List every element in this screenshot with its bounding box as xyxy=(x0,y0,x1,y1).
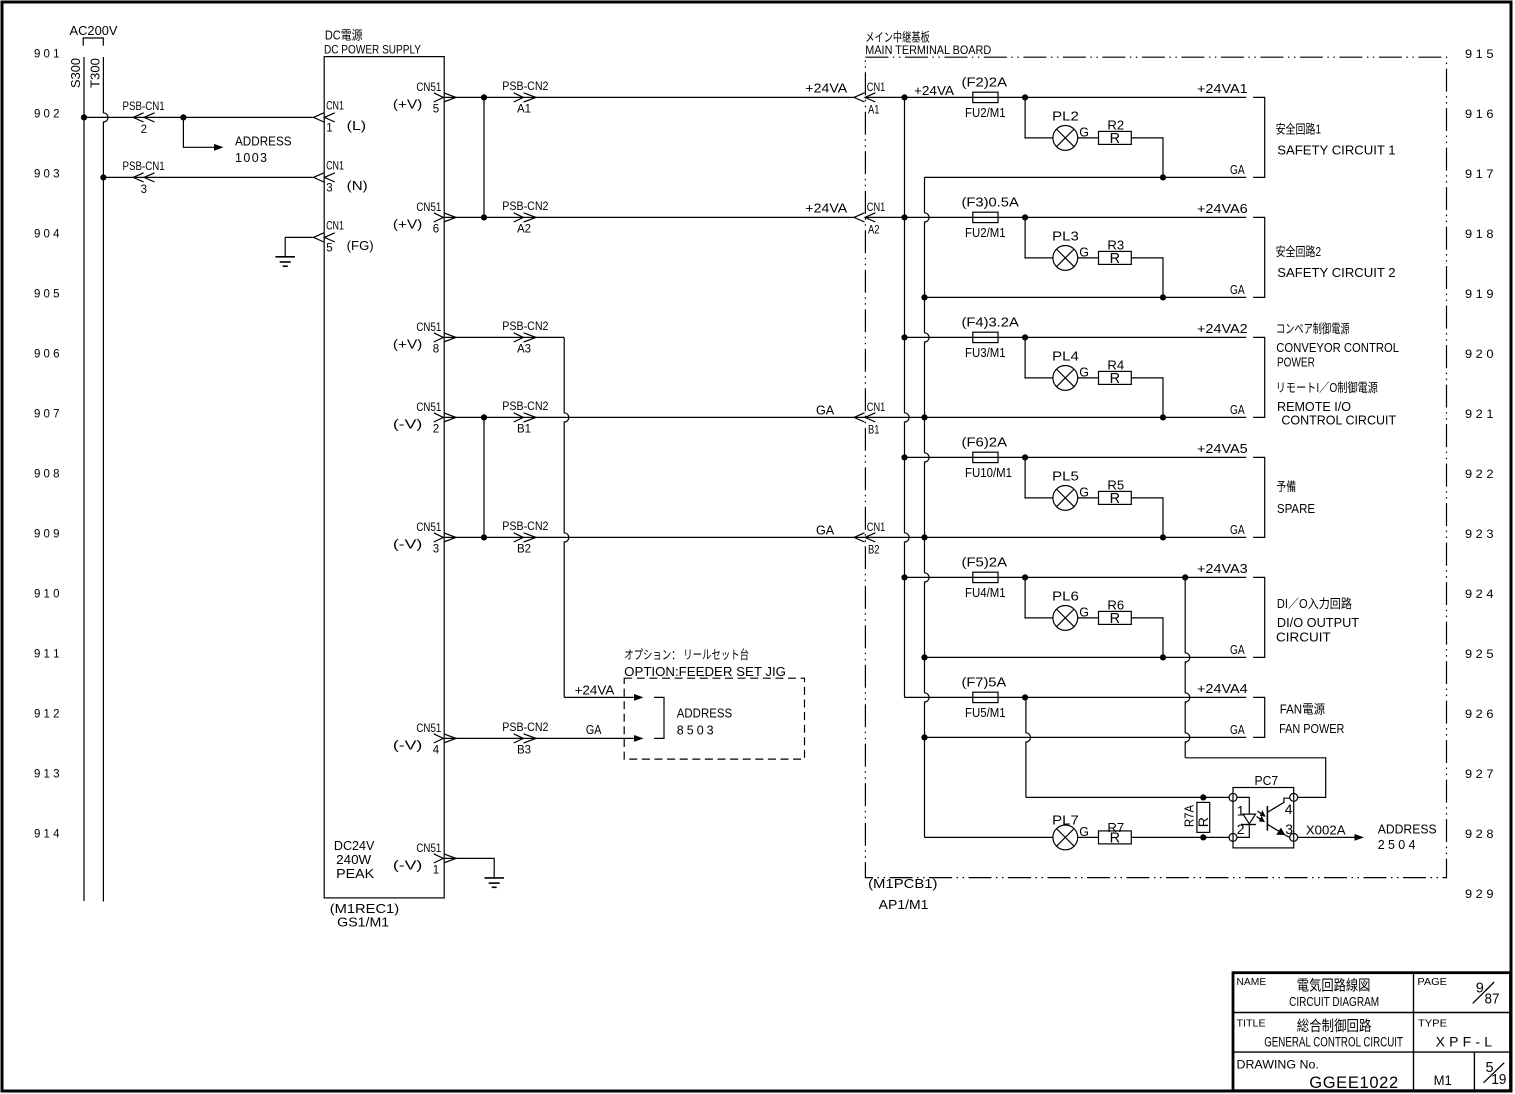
svg-text:NAME: NAME xyxy=(1237,976,1267,988)
svg-text:A3: A3 xyxy=(517,343,531,355)
svg-text:R2: R2 xyxy=(1107,119,1124,133)
svg-text:(M1REC1): (M1REC1) xyxy=(330,902,399,916)
junction +24VA bus y=457.4 xyxy=(901,454,907,460)
connector CN51 pin 6 (+V) xyxy=(434,213,444,222)
junction after fuse ch2 xyxy=(1022,214,1028,220)
svg-text:GA: GA xyxy=(1230,283,1245,297)
svg-text:9 0 6: 9 0 6 xyxy=(34,347,60,361)
main terminal board box AP1/M1 (chain line) xyxy=(865,57,1446,877)
bracket load ch6 xyxy=(1253,697,1265,737)
connector PSB-CN2 pin B1 xyxy=(514,413,524,422)
svg-text:ADDRESS: ADDRESS xyxy=(677,707,732,721)
svg-text:(F4)3.2A: (F4)3.2A xyxy=(962,315,1020,329)
wire CN51-1 to ground xyxy=(444,858,494,878)
option feeder set jig dashed box xyxy=(624,678,804,759)
svg-text:リモートI／O制御電源: リモートI／O制御電源 xyxy=(1276,380,1379,395)
svg-text:DC POWER SUPPLY: DC POWER SUPPLY xyxy=(324,43,421,57)
fuse (F2)2A FU2/M1 xyxy=(973,92,998,102)
junction +24VA bus y=577.4 xyxy=(901,574,907,580)
junction R7A bottom xyxy=(1200,834,1206,840)
svg-text:6: 6 xyxy=(433,223,439,235)
svg-text:2: 2 xyxy=(141,124,147,136)
svg-text:(-V): (-V) xyxy=(393,418,422,432)
svg-text:DC電源: DC電源 xyxy=(325,29,363,43)
wire GA row ch5 xyxy=(925,656,1247,658)
svg-text:AC200V: AC200V xyxy=(70,24,119,38)
svg-text:CN51: CN51 xyxy=(416,522,441,534)
svg-text:+24VA5: +24VA5 xyxy=(1197,442,1248,456)
wire tie CN51-2/3 xyxy=(483,417,485,537)
connector PSB-CN2 pin A2 xyxy=(514,213,524,222)
svg-text:SAFETY CIRCUIT 1: SAFETY CIRCUIT 1 xyxy=(1277,144,1395,158)
svg-text:FAN電源: FAN電源 xyxy=(1280,703,1326,717)
svg-text:CN1: CN1 xyxy=(867,402,886,414)
wire fuse to lamp PL4 xyxy=(1025,337,1053,378)
svg-text:DC24V: DC24V xyxy=(334,839,375,853)
svg-text:GA: GA xyxy=(1230,643,1245,657)
connector CN1 pin A2 on main board xyxy=(854,213,864,222)
resistor R4 xyxy=(1099,371,1132,384)
wire +24VA into option jig xyxy=(564,696,634,698)
svg-text:240W: 240W xyxy=(336,853,371,867)
svg-text:GA: GA xyxy=(1230,523,1245,537)
svg-text:R: R xyxy=(1110,611,1120,627)
fuse (F7)5A FU5/M1 xyxy=(973,692,998,702)
svg-text:+24VA: +24VA xyxy=(805,202,848,216)
svg-text:3: 3 xyxy=(141,184,147,196)
svg-text:GA: GA xyxy=(816,523,835,537)
resistor R6 xyxy=(1099,611,1132,624)
svg-text:総合制御回路: 総合制御回路 xyxy=(1297,1018,1372,1035)
svg-text:XPF-L: XPF-L xyxy=(1436,1033,1493,1049)
junction on T300 row 903 xyxy=(100,174,106,180)
svg-text:9 2 2: 9 2 2 xyxy=(1465,467,1494,481)
wire resistor R3 to GA xyxy=(1131,258,1163,298)
junction after fuse ch4 xyxy=(1022,454,1028,460)
svg-text:PL3: PL3 xyxy=(1052,230,1079,244)
svg-text:9 1 8: 9 1 8 xyxy=(1465,227,1494,241)
PC7 pin 2 xyxy=(1229,833,1237,841)
svg-text:4: 4 xyxy=(433,744,440,756)
svg-text:3: 3 xyxy=(1285,821,1293,837)
resistor R3 xyxy=(1099,251,1132,264)
connector CN1 pin B1 on main board xyxy=(854,413,864,422)
svg-text:CN51: CN51 xyxy=(416,202,441,214)
resistor R7 xyxy=(1099,831,1132,844)
svg-text:+24VA1: +24VA1 xyxy=(1197,82,1248,96)
wire PC7 pin 3 to X002A xyxy=(1298,836,1355,838)
junction GA bus y=737.4 xyxy=(921,734,927,740)
svg-text:MAIN TERMINAL BOARD: MAIN TERMINAL BOARD xyxy=(865,43,991,57)
svg-text:(FG): (FG) xyxy=(347,239,374,253)
svg-text:9 2 4: 9 2 4 xyxy=(1465,587,1494,601)
wire CN51-6 to CN1-A2 (+24VA) xyxy=(444,216,854,218)
svg-text:(-V): (-V) xyxy=(393,538,422,552)
svg-text:CN51: CN51 xyxy=(416,723,441,735)
svg-text:9 2 6: 9 2 6 xyxy=(1465,707,1494,721)
svg-text:AP1/M1: AP1/M1 xyxy=(879,898,929,912)
svg-text:CN51: CN51 xyxy=(416,82,441,94)
wire FG to CN1-5 xyxy=(285,236,313,238)
svg-text:FU4/M1: FU4/M1 xyxy=(965,586,1006,600)
svg-text:PSB-CN2: PSB-CN2 xyxy=(502,521,548,533)
svg-text:電気回路線図: 電気回路線図 xyxy=(1297,977,1371,994)
svg-text:R7: R7 xyxy=(1107,821,1124,835)
connector CN1 pin 1 (L) on DC supply xyxy=(314,113,324,122)
wire T300 (vertical supply line) xyxy=(103,57,108,902)
bracket load ch3 xyxy=(1253,337,1265,417)
junction +24VA3 to PC7 branch xyxy=(1182,574,1188,580)
svg-text:B3: B3 xyxy=(517,744,531,756)
wire fuse to lamp PL6 xyxy=(1025,577,1053,618)
junction GA bus y=297.4 xyxy=(921,294,927,300)
wire PL7 to R7 xyxy=(1078,836,1099,838)
connector CN51 pin 8 (+V) xyxy=(434,333,444,342)
svg-text:PL2: PL2 xyxy=(1052,110,1079,124)
svg-text:9 1 4: 9 1 4 xyxy=(34,827,60,841)
wire +24V feed row channel 2 xyxy=(865,216,1246,218)
svg-text:+24VA2: +24VA2 xyxy=(1197,322,1248,336)
svg-text:CN1: CN1 xyxy=(326,101,344,113)
wire to ADDRESS 1003 xyxy=(183,117,214,147)
svg-text:+24VA4: +24VA4 xyxy=(1197,682,1248,696)
svg-text:コンベア制御電源: コンベア制御電源 xyxy=(1276,321,1350,336)
wire GA row ch2 xyxy=(925,296,1247,298)
PC7 pin 1 xyxy=(1229,793,1237,801)
svg-text:R: R xyxy=(1110,251,1120,267)
svg-text:FU5/M1: FU5/M1 xyxy=(965,706,1006,720)
wire fuse to lamp PL2 xyxy=(1025,97,1053,137)
svg-text:R5: R5 xyxy=(1107,479,1124,493)
svg-text:A2: A2 xyxy=(517,223,531,235)
wire fuse to lamp PL5 xyxy=(1025,457,1053,498)
svg-text:(L): (L) xyxy=(347,119,366,133)
svg-text:PSB-CN2: PSB-CN2 xyxy=(502,321,548,333)
connector CN51 pin 3 (-V) xyxy=(434,533,444,542)
wire GA bus to PL7 row xyxy=(925,836,1053,838)
svg-text:FAN POWER: FAN POWER xyxy=(1279,722,1344,736)
svg-text:9 2 3: 9 2 3 xyxy=(1465,527,1494,541)
connector CN1 pin 3 (N) on DC supply xyxy=(314,173,324,182)
svg-text:9 2 1: 9 2 1 xyxy=(1465,407,1494,421)
junction on S300 row 902 xyxy=(81,114,87,120)
junction after fuse ch5 xyxy=(1022,574,1028,580)
svg-text:S300: S300 xyxy=(69,58,83,88)
junction tie A2 xyxy=(481,214,487,220)
svg-text:TITLE: TITLE xyxy=(1237,1017,1266,1029)
svg-text:+24VA3: +24VA3 xyxy=(1197,562,1248,576)
DC power supply box GS1/M1 xyxy=(324,57,444,898)
svg-text:9 0 3: 9 0 3 xyxy=(34,167,60,181)
junction after fuse ch1 xyxy=(1022,94,1028,100)
svg-text:PSB-CN2: PSB-CN2 xyxy=(502,722,548,734)
svg-text:GA: GA xyxy=(1230,163,1245,177)
resistor R7A (vertical) xyxy=(1197,802,1210,832)
bus +24VA vertical xyxy=(905,97,910,697)
svg-text:DRAWING No.: DRAWING No. xyxy=(1237,1057,1319,1071)
junction R7A top xyxy=(1200,794,1206,800)
lamp PL7 xyxy=(1053,825,1078,850)
svg-text:(N): (N) xyxy=(347,179,368,193)
bracket load ch5 xyxy=(1253,577,1265,657)
svg-text:安全回路1: 安全回路1 xyxy=(1276,122,1321,137)
wire fuse to lamp PL3 xyxy=(1025,217,1053,258)
connector PSB-CN1 pin 3 xyxy=(133,173,143,182)
wire GA row ch3 xyxy=(854,416,1246,418)
svg-text:PL7: PL7 xyxy=(1052,813,1079,827)
svg-text:FU2/M1: FU2/M1 xyxy=(965,106,1006,120)
svg-text:B1: B1 xyxy=(868,424,880,436)
PC7 phototransistor xyxy=(1266,806,1268,831)
svg-text:(-V): (-V) xyxy=(393,859,422,873)
svg-text:PL5: PL5 xyxy=(1052,470,1079,484)
wire +24V feed row channel 5 xyxy=(905,576,1247,578)
svg-text:OPTION:FEEDER SET JIG: OPTION:FEEDER SET JIG xyxy=(624,665,786,679)
svg-text:GA: GA xyxy=(1230,403,1245,417)
svg-text:PC7: PC7 xyxy=(1255,774,1279,788)
AC200V bracket xyxy=(83,38,103,46)
svg-text:9 0 1: 9 0 1 xyxy=(34,47,60,61)
connector CN1 pin 5 (FG) on DC supply xyxy=(314,233,324,242)
connector CN51 pin 1 (-V) xyxy=(434,854,444,863)
svg-text:R: R xyxy=(1110,131,1120,147)
svg-text:9 1 9: 9 1 9 xyxy=(1465,287,1494,301)
svg-text:オプション： リールセット台: オプション： リールセット台 xyxy=(624,647,749,662)
wire resistor R2 to GA xyxy=(1131,138,1163,178)
svg-text:9 2 0: 9 2 0 xyxy=(1465,347,1494,361)
wire lamp to resistor R4 xyxy=(1078,377,1099,379)
fuse (F6)2A FU10/M1 xyxy=(973,452,998,462)
wire lamp to resistor R5 xyxy=(1078,497,1099,499)
PC7 pin 4 xyxy=(1290,793,1298,801)
svg-text:GA: GA xyxy=(816,403,835,417)
svg-text:CN1: CN1 xyxy=(326,221,344,233)
lamp PL6 xyxy=(1053,606,1078,631)
svg-text:(F3)0.5A: (F3)0.5A xyxy=(962,195,1020,209)
svg-text:1: 1 xyxy=(433,864,439,876)
svg-text:DI／O入力回路: DI／O入力回路 xyxy=(1277,596,1352,611)
svg-text:(M1PCB1): (M1PCB1) xyxy=(868,877,937,891)
wire row 902 phase S to CN1-1 (L) xyxy=(84,116,313,118)
svg-text:9 2 5: 9 2 5 xyxy=(1465,647,1494,661)
fuse (F4)3.2A FU3/M1 xyxy=(973,332,998,342)
svg-text:PSB-CN2: PSB-CN2 xyxy=(502,201,548,213)
svg-text:R: R xyxy=(1110,491,1120,507)
wire resistor R5 to GA xyxy=(1131,498,1163,538)
svg-text:予備: 予備 xyxy=(1276,479,1296,494)
svg-text:R: R xyxy=(1195,817,1211,827)
wire tie CN51-5/6 xyxy=(483,97,485,217)
svg-text:19: 19 xyxy=(1491,1072,1506,1088)
svg-text:9 0 4: 9 0 4 xyxy=(34,227,60,241)
svg-text:9 1 2: 9 1 2 xyxy=(34,707,60,721)
ground symbol at CN51-1 xyxy=(484,877,504,879)
svg-text:9 1 3: 9 1 3 xyxy=(34,767,60,781)
svg-text:+24VA: +24VA xyxy=(914,84,955,98)
fuse (F5)2A FU4/M1 xyxy=(973,572,998,582)
svg-text:9 1 6: 9 1 6 xyxy=(1465,107,1494,121)
connector PSB-CN2 pin A1 xyxy=(514,93,524,102)
svg-text:GS1/M1: GS1/M1 xyxy=(337,916,389,930)
svg-text:(+V): (+V) xyxy=(393,218,422,232)
svg-text:9 0 7: 9 0 7 xyxy=(34,407,60,421)
connector CN51 pin 4 (-V) xyxy=(434,734,444,743)
svg-text:9 1 1: 9 1 1 xyxy=(34,647,60,661)
fuse (F3)0.5A FU2/M1 xyxy=(973,212,998,222)
wire GA row ch4 xyxy=(854,536,1246,538)
svg-text:9 0 2: 9 0 2 xyxy=(34,107,60,121)
svg-text:PL6: PL6 xyxy=(1052,590,1079,604)
wire +24V feed row channel 3 xyxy=(905,336,1247,338)
svg-text:TYPE: TYPE xyxy=(1418,1017,1447,1029)
svg-text:9 0 9: 9 0 9 xyxy=(34,527,60,541)
svg-text:9 2 8: 9 2 8 xyxy=(1465,827,1494,841)
node ADDRESS 1003 branch junction xyxy=(180,114,186,120)
svg-text:B2: B2 xyxy=(868,544,880,556)
junction after fuse ch3 xyxy=(1022,334,1028,340)
svg-text:CONTROL CIRCUIT: CONTROL CIRCUIT xyxy=(1281,414,1396,428)
svg-text:5: 5 xyxy=(433,103,439,115)
svg-text:CN1: CN1 xyxy=(867,522,886,534)
svg-text:R6: R6 xyxy=(1107,599,1124,613)
svg-text:CN1: CN1 xyxy=(326,161,344,173)
wire resistor R6 to GA xyxy=(1131,618,1163,658)
connector CN1 pin B2 on main board xyxy=(854,533,864,542)
wire +24V feed row channel 4 xyxy=(905,456,1247,458)
svg-text:2: 2 xyxy=(1237,821,1245,837)
wire A3 vertical to option jig +24VA xyxy=(564,337,569,697)
svg-text:CIRCUIT DIAGRAM: CIRCUIT DIAGRAM xyxy=(1289,994,1379,1009)
svg-text:(-V): (-V) xyxy=(393,739,422,753)
svg-text:CN51: CN51 xyxy=(416,322,441,334)
wire +24V feed row channel 1 xyxy=(865,96,1246,98)
svg-text:8: 8 xyxy=(433,343,439,355)
svg-text:REMOTE I/O: REMOTE I/O xyxy=(1277,400,1351,414)
svg-text:CN1: CN1 xyxy=(867,82,886,94)
svg-text:3: 3 xyxy=(326,183,332,195)
optocoupler PC7 box xyxy=(1233,788,1294,848)
wire lamp to resistor R3 xyxy=(1078,257,1099,259)
svg-text:CN51: CN51 xyxy=(416,843,441,855)
svg-text:GENERAL CONTROL CIRCUIT: GENERAL CONTROL CIRCUIT xyxy=(1264,1034,1403,1049)
wire resistor R4 to GA xyxy=(1131,378,1163,418)
svg-text:2: 2 xyxy=(433,423,439,435)
connector CN51 pin 5 (+V) xyxy=(434,93,444,102)
title block xyxy=(1233,973,1511,1091)
bracket in option jig xyxy=(654,697,664,738)
svg-text:(F2)2A: (F2)2A xyxy=(962,75,1008,89)
svg-text:R7A: R7A xyxy=(1183,804,1197,827)
svg-text:POWER: POWER xyxy=(1277,356,1315,370)
svg-text:PSB-CN1: PSB-CN1 xyxy=(123,101,165,113)
junction after fuse ch6 xyxy=(1022,694,1028,700)
junction GA bus y=417.4 xyxy=(921,414,927,420)
svg-text:R: R xyxy=(1110,371,1120,387)
junction GA bus y=537.4 xyxy=(921,534,927,540)
svg-text:9 1 0: 9 1 0 xyxy=(34,587,60,601)
junction +24VA bus y=97.4 xyxy=(901,94,907,100)
svg-text:T300: T300 xyxy=(89,58,103,88)
bracket load ch4 xyxy=(1253,457,1265,537)
connector PSB-CN2 pin B3 xyxy=(514,734,524,743)
wire GA row ch1 xyxy=(925,176,1247,178)
connector PSB-CN1 pin 2 xyxy=(133,113,143,122)
wire CN51-3 to CN1-B2 (GA) xyxy=(444,536,854,538)
svg-text:5: 5 xyxy=(326,243,332,255)
connector CN51 pin 2 (-V) xyxy=(434,413,444,422)
junction +24VA bus y=337.4 xyxy=(901,334,907,340)
svg-text:3: 3 xyxy=(433,543,439,555)
wire GA row ch6 xyxy=(925,736,1247,738)
svg-text:9 0 8: 9 0 8 xyxy=(34,467,60,481)
ground symbol xyxy=(275,256,295,258)
wire CN51-8 / PSB-CN2 A3 xyxy=(444,336,564,338)
svg-text:GGEE1022: GGEE1022 xyxy=(1309,1074,1398,1092)
svg-text:+24VA6: +24VA6 xyxy=(1197,202,1248,216)
PC7 light arrows xyxy=(1257,811,1262,814)
svg-text:M1: M1 xyxy=(1434,1072,1452,1088)
wire R7 to PC7 pin 2 xyxy=(1131,836,1229,838)
junction resistor-GA ch4 xyxy=(1160,534,1166,540)
svg-text:+24VA: +24VA xyxy=(575,683,615,697)
svg-text:R4: R4 xyxy=(1107,359,1124,373)
junction resistor-GA ch1 xyxy=(1160,174,1166,180)
wire +24VA3 down to PC7 pin 4 xyxy=(1185,577,1190,757)
lamp PL4 xyxy=(1053,366,1078,391)
svg-text:ADDRESS: ADDRESS xyxy=(235,135,292,149)
svg-text:PEAK: PEAK xyxy=(336,867,375,881)
wire row 903 phase T to CN1-3 (N) xyxy=(103,176,312,178)
connector CN1 pin A1 on main board xyxy=(854,93,864,102)
svg-text:DI/O OUTPUT: DI/O OUTPUT xyxy=(1277,616,1360,630)
svg-text:PSB-CN2: PSB-CN2 xyxy=(502,81,548,93)
svg-text:FU2/M1: FU2/M1 xyxy=(965,226,1006,240)
svg-text:9 2 9: 9 2 9 xyxy=(1465,887,1494,901)
svg-text:PAGE: PAGE xyxy=(1417,976,1447,988)
wire lamp to resistor R6 xyxy=(1078,617,1099,619)
bracket load ch1 xyxy=(1253,97,1265,177)
svg-text:(F5)2A: (F5)2A xyxy=(962,555,1008,569)
junction resistor-GA ch3 xyxy=(1160,414,1166,420)
svg-text:GA: GA xyxy=(586,723,602,737)
PC7 LED xyxy=(1237,797,1249,814)
svg-text:+24VA: +24VA xyxy=(805,82,848,96)
svg-text:87: 87 xyxy=(1485,992,1500,1008)
svg-text:SPARE: SPARE xyxy=(1277,502,1315,516)
svg-text:GA: GA xyxy=(1230,723,1245,737)
connector PSB-CN2 pin A3 xyxy=(514,333,524,342)
svg-text:1003: 1003 xyxy=(235,151,267,165)
lamp PL5 xyxy=(1053,486,1078,511)
svg-text:(F7)5A: (F7)5A xyxy=(962,675,1007,689)
svg-text:9 1 5: 9 1 5 xyxy=(1465,47,1494,61)
resistor R5 xyxy=(1099,491,1132,504)
junction GA bus y=657.4 xyxy=(921,654,927,660)
connector PSB-CN2 pin B2 xyxy=(514,533,524,542)
wire lamp to resistor R2 xyxy=(1078,137,1099,139)
junction tie B2 xyxy=(481,534,487,540)
junction resistor-GA ch2 xyxy=(1160,294,1166,300)
svg-text:9 2 7: 9 2 7 xyxy=(1465,767,1494,781)
svg-text:CIRCUIT: CIRCUIT xyxy=(1276,630,1331,644)
svg-text:1: 1 xyxy=(326,123,332,135)
junction tie A1 xyxy=(481,94,487,100)
svg-text:PSB-CN1: PSB-CN1 xyxy=(123,161,165,173)
svg-text:CN1: CN1 xyxy=(867,202,886,214)
svg-text:A1: A1 xyxy=(868,104,880,116)
lamp PL3 xyxy=(1053,246,1078,271)
svg-text:9 1 7: 9 1 7 xyxy=(1465,167,1494,181)
